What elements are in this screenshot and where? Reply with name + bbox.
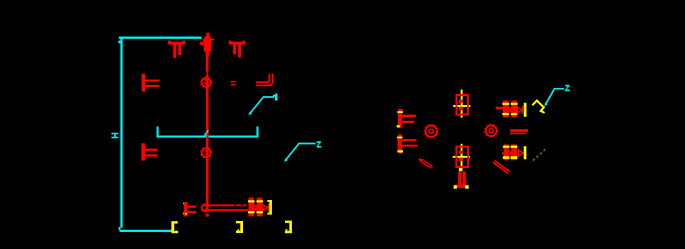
via A (circled) [425, 125, 438, 138]
circled pad P1 [201, 77, 211, 87]
bottom trace (double line) [202, 204, 249, 211]
label 1 [273, 94, 278, 101]
diode footprint D1 (bottom) [248, 198, 272, 217]
capacitor footprint CA (right fig, upper left) [397, 109, 416, 128]
dimension label H (rotated) [111, 133, 118, 139]
circled pad P2 [201, 148, 211, 158]
trace stub below [206, 214, 209, 217]
diode footprint DA (right fig, upper) [496, 101, 527, 118]
label 2 (right fig) [565, 85, 570, 91]
dim angled bracket mark (olive) [531, 149, 545, 162]
bent trace hook with arrow (right fig) [418, 158, 432, 167]
leader 2 (cyan) [285, 144, 315, 161]
center tick arrow on middle bracket (over trace) [205, 130, 209, 136]
diode footprint DB (right fig, lower) [502, 144, 526, 160]
bent trace hook J1 [256, 74, 273, 86]
leader 2 (right fig, cyan) [545, 89, 564, 105]
angled bracket mark (yellow, by leader 2) [532, 101, 544, 113]
leader 1 (cyan) [250, 97, 275, 114]
via pair footprint TT1 [168, 41, 185, 58]
board corner mark ] (yellow, middle) [236, 221, 243, 233]
via pair footprint TT2 [229, 41, 246, 58]
IC pad footprint UA (upper, with crosshair) [453, 90, 470, 118]
via B (circled) [485, 124, 498, 137]
capacitor footprint C2 (left lower) [141, 143, 157, 160]
connector component at top (stub + funnel + body) [200, 33, 214, 56]
IC pad footprint UB (lower, with crosshair) [453, 144, 470, 171]
label 2 [317, 141, 322, 147]
board corner mark [ (yellow) [171, 221, 178, 233]
small pad pair (=) [231, 81, 236, 86]
capacitor footprint CB (right fig, lower left) [397, 134, 418, 153]
dimension bracket H (cyan) [119, 38, 202, 231]
middle dimension bracket [157, 127, 259, 138]
pad pair (=) right fig [510, 129, 528, 134]
trace corner arc [202, 204, 207, 211]
double diagonal trace (right fig, lower) [493, 161, 510, 174]
capacitor footprint C1 (left upper) [142, 74, 160, 92]
board corner mark ] (yellow, right) [285, 221, 292, 234]
main vertical trace (red) [206, 44, 209, 72]
input capacitor footprint (bottom left) [183, 202, 196, 216]
via pair footprint (rotated TT, below UB) [454, 168, 469, 189]
